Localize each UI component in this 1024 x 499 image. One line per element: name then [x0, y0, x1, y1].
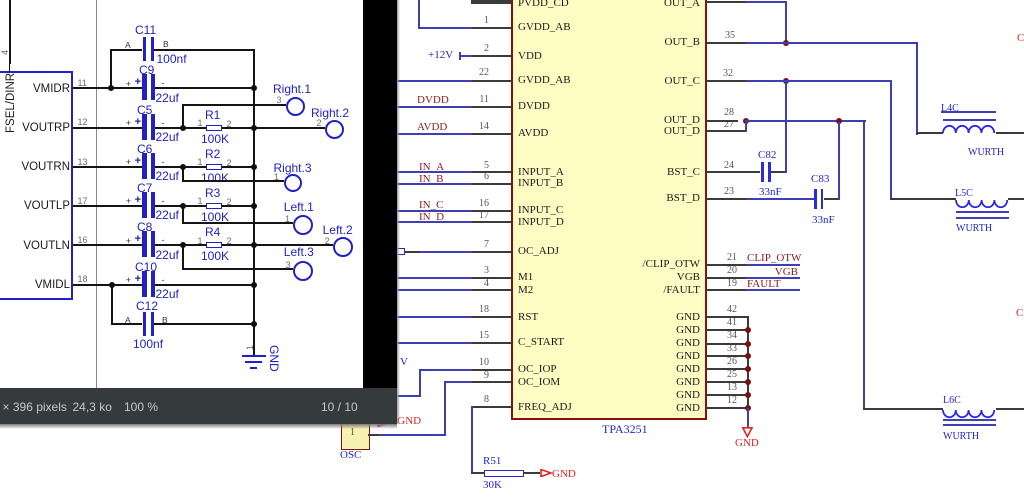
node OUT_D junction at pin 28 [743, 118, 749, 124]
node GND bus junctions [745, 327, 751, 333]
wire pin27 up to pin28 [745, 120, 747, 132]
terminal + wire pin 7 OC_ADJ [396, 248, 405, 255]
IC U? TPA3251 body [511, 0, 707, 420]
resistor R1 [205, 109, 220, 121]
wire C12 loop [111, 285, 113, 324]
capacitor C11 (100nf) [135, 24, 156, 36]
viewer window shadow [0, 424, 397, 429]
net label IN_D + wire [419, 212, 444, 223]
wire OUT_B to L4C [746, 42, 918, 44]
IC U2 (FSEL/DINR device, clipped) [0, 71, 73, 300]
node OUT_C junction [783, 78, 789, 84]
resistor R4 [205, 226, 220, 238]
capacitor C9 (22uf) [139, 64, 154, 76]
capacitor C8 [137, 221, 152, 233]
net label V (occluded) [400, 357, 408, 368]
capacitor C10 [135, 261, 157, 273]
wire M2 [390, 289, 472, 291]
inductor L4C [941, 103, 959, 114]
wire pin 1 GVDD_AB [418, 27, 472, 29]
GND net label right of R51 [540, 469, 553, 477]
GND net label (left, partially occluded) [377, 418, 391, 427]
wire GND bus vertical [747, 316, 749, 409]
wire C11 loop [110, 49, 112, 89]
IC U2 pin numbers [78, 79, 87, 88]
capacitor C12 (100nf) [136, 300, 158, 312]
connector Left.1 [284, 201, 314, 213]
wire C_START [390, 342, 472, 344]
connector Left.3 [284, 246, 314, 258]
pin 45 stub top [471, 0, 511, 2]
connector Left.2 [323, 224, 353, 236]
resistor R2 [205, 148, 220, 160]
net label DVDD + wire [417, 95, 449, 106]
IC U1 right pin names [520, 0, 700, 9]
node junction at 838 [836, 118, 842, 124]
IC U1 right pin stubs OUT_A..BST_D [707, 1, 746, 3]
wire RST [390, 316, 472, 318]
wire OC_IOP bend [419, 369, 472, 371]
pin 4 wire (top) [9, 0, 11, 64]
node VMIDR junction [108, 85, 114, 91]
wire OUT_C to L5C [746, 80, 892, 82]
net label IN_C + wire [419, 200, 443, 211]
wire GND bus down to gnd arrow [747, 408, 749, 427]
power net +12V on pin 2 (VDD) [428, 50, 453, 61]
node VMIDL junction [109, 282, 115, 288]
node bus junctions [251, 85, 257, 91]
net label IN_B + wire [419, 174, 443, 185]
partial red net label mid right [1016, 308, 1023, 319]
wire R51 to GND [524, 472, 540, 474]
IC U1 left pin names [518, 0, 569, 9]
IC label TPA3251 [602, 424, 648, 435]
OSC component [341, 421, 370, 450]
wire C83 up to OUT_D [838, 122, 840, 200]
IC U1 GND pin stubs (42,41,34,33,26,25,13,12) [707, 316, 748, 318]
inductor L6C [943, 395, 961, 406]
wires U2 pins to capacitors [73, 87, 142, 89]
capacitor C82 [758, 150, 776, 161]
wire C82 up to OUT_C [785, 82, 787, 173]
node OUT_B junction [783, 40, 789, 46]
pin name FSEL/DINR [5, 73, 17, 133]
viewer black canvas backdrop [363, 0, 398, 388]
capacitor C5 [137, 104, 152, 116]
wire M1 [390, 277, 472, 279]
connector Right.3 [274, 162, 312, 174]
IC U1 left pin stubs [471, 2, 511, 4]
ground symbol [242, 355, 266, 357]
schematic page border line [96, 0, 97, 388]
inductor L5C [955, 188, 973, 199]
resistor R3 [205, 187, 220, 199]
IC U1 right pin numbers [725, 31, 735, 41]
partial red net label top right [1017, 33, 1024, 44]
capacitor C7 [137, 182, 152, 194]
IC U2 pin names [0, 83, 70, 95]
wire pin 22 GVDD_AB [390, 80, 472, 82]
wires CLIP_OTW / VGB / FAULT [707, 264, 746, 266]
ground (red arrow) [742, 427, 753, 438]
connector Right.1 [273, 83, 311, 95]
wire OUT_A bend to OUT_B [746, 1, 787, 3]
capacitor C6 [137, 143, 152, 155]
net label AVDD + wire [417, 122, 447, 133]
connector Right.2 [311, 107, 349, 119]
IC U1 left pin numbers [459, 16, 489, 26]
capacitor C83 [811, 174, 829, 185]
wire GND bus vertical [253, 49, 255, 357]
net label IN_A + wire [419, 162, 444, 173]
wire OC_IOM bend to OSC [444, 381, 472, 383]
wire OUT_D to L6C [746, 120, 866, 122]
wire FREQ_ADJ down to R51 [471, 406, 473, 474]
viewer status bar [0, 388, 397, 424]
resistor R51 [484, 470, 524, 477]
